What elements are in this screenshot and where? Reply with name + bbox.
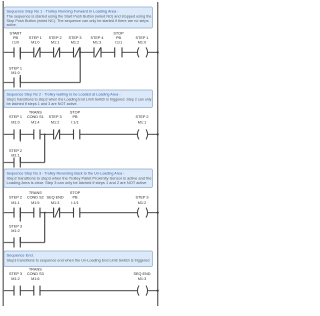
svg-text:STEP 1: STEP 1	[29, 36, 42, 40]
left power rail	[2, 1, 4, 306]
svg-text:M1:2: M1:2	[138, 201, 146, 205]
rung 2 branch riser left	[19, 129, 21, 162]
contact TRANS COND S2 M1:5 (NO)	[34, 208, 40, 218]
rung 1 seal contact STEP 1 M1:0 (NO) with label	[6, 60, 24, 88]
svg-text:SEQ END: SEQ END	[47, 195, 64, 199]
contact START PB I:1/0 (NO)	[14, 47, 20, 57]
svg-text:PB: PB	[72, 195, 78, 199]
svg-text:M1:1: M1:1	[51, 41, 59, 45]
svg-text:STEP 1: STEP 1	[9, 115, 22, 119]
contact STEP 2 M1:1 (NC)	[54, 47, 60, 57]
rung 1 branch riser left at node after START PB	[19, 47, 21, 82]
svg-text:M1:1: M1:1	[138, 120, 146, 124]
svg-text:START: START	[9, 32, 22, 36]
svg-text:TRANS: TRANS	[29, 110, 42, 114]
svg-text:TRANS: TRANS	[29, 191, 42, 195]
contact TRANS COND S1 M1:4 (NO)	[34, 129, 40, 139]
rung 2 labels	[9, 110, 149, 124]
svg-text:Sequence Step No 2 - Trolley w: Sequence Step No 2 - Trolley waiting to …	[7, 92, 122, 97]
contact TRANS COND S3 M1:6 (NO)	[34, 286, 40, 296]
svg-text:M1:1: M1:1	[11, 201, 19, 205]
rung 4 wire segments	[3, 290, 158, 292]
rung 4 labels	[9, 268, 151, 281]
rung 3 wire segments	[3, 212, 158, 214]
svg-text:M1:2: M1:2	[11, 229, 19, 233]
svg-text:STEP 3: STEP 3	[9, 272, 22, 276]
svg-text:Loading Area is clear. Step 3: Loading Area is clear. Step 3 can only b…	[7, 181, 147, 185]
contact SEQ END M1:3 (NC)	[54, 208, 60, 218]
svg-text:STOP: STOP	[113, 32, 124, 36]
rung 1 labels	[9, 32, 148, 45]
rung 3 branch riser right	[44, 213, 46, 243]
contact STOP PB I:1/1 (NO)	[74, 129, 80, 139]
contact STEP 3 M1:2 (NC)	[54, 129, 60, 139]
contact STOP PB I:1/1 (NO)	[74, 208, 80, 218]
svg-text:SEQ END: SEQ END	[133, 272, 150, 276]
svg-text:I:1/0: I:1/0	[12, 41, 19, 45]
rung 2 seal branch wire	[3, 162, 45, 164]
svg-text:M1:0: M1:0	[138, 41, 146, 45]
svg-text:be latched if steps 1 and 3 ar: be latched if steps 1 and 3 are NOT acti…	[7, 102, 78, 106]
svg-text:STOP: STOP	[70, 110, 81, 114]
coil STEP 3 M1:2	[137, 208, 139, 218]
header box: Sequence Step No 3	[4, 169, 153, 188]
rung 1 branch riser right after STEP 3 NC	[79, 47, 81, 82]
svg-text:COND S2: COND S2	[27, 195, 44, 199]
coil STEP 1 M1:0	[137, 47, 139, 57]
svg-text:STEP 2: STEP 2	[49, 36, 62, 40]
svg-text:I:1/1: I:1/1	[115, 41, 122, 45]
svg-text:M1:6: M1:6	[31, 277, 39, 281]
rung 2 seal contact STEP 2 M1:1 (NO) with label	[6, 142, 24, 168]
svg-text:M1:0: M1:0	[11, 120, 19, 124]
rung 3 branch riser left	[19, 208, 21, 243]
svg-text:M1:3: M1:3	[138, 277, 146, 281]
svg-text:PB: PB	[72, 115, 78, 119]
contact STEP 1 M1:0 (NC)	[34, 47, 40, 57]
svg-text:Sequence Step No 1 - Trolley R: Sequence Step No 1 - Trolley Running For…	[7, 9, 120, 14]
svg-text:M1:3: M1:3	[93, 41, 101, 45]
rung 1 seal branch wire	[3, 82, 80, 84]
svg-text:Sequence End.: Sequence End.	[7, 253, 34, 258]
rung 1 wire segments	[3, 51, 158, 53]
right power rail	[157, 2, 159, 306]
svg-text:Stop Push Button (wired NC). T: Stop Push Button (wired NC). The sequenc…	[7, 19, 149, 23]
svg-text:PB: PB	[116, 36, 122, 40]
svg-text:M1:0: M1:0	[31, 41, 39, 45]
svg-text:STOP: STOP	[70, 191, 81, 195]
contact STEP 3 M1:2 (NC)	[74, 47, 80, 57]
contact STEP 2 M1:1 (NO)	[14, 208, 20, 218]
svg-text:Step3 transitions to sequence: Step3 transitions to sequence end when t…	[7, 259, 150, 263]
svg-text:Sequence Step No 3 - Trolley R: Sequence Step No 3 - Trolley Reversing B…	[7, 171, 126, 176]
svg-text:STEP 3: STEP 3	[49, 115, 62, 119]
svg-text:M1:2: M1:2	[71, 41, 79, 45]
coil STEP 2 M1:1	[137, 129, 139, 139]
svg-text:STEP 3: STEP 3	[9, 224, 22, 228]
contact STOP PB I:1/1 (NO)	[115, 47, 122, 57]
svg-text:STEP 1: STEP 1	[135, 36, 148, 40]
svg-text:M1:1: M1:1	[11, 154, 19, 158]
svg-text:STEP 2: STEP 2	[9, 195, 22, 199]
coil SEQ END M1:3	[137, 286, 139, 296]
rung 3 labels	[9, 191, 149, 205]
contact STEP 1 M1:0 (NO)	[14, 129, 20, 139]
svg-text:STEP 1: STEP 1	[9, 66, 22, 70]
svg-text:M1:5: M1:5	[31, 201, 39, 205]
svg-text:STEP 3: STEP 3	[68, 36, 81, 40]
svg-text:I:1/1: I:1/1	[71, 201, 78, 205]
rung 2 wire segments	[3, 133, 158, 135]
svg-text:COND S3: COND S3	[27, 272, 44, 276]
header box: Sequence End	[4, 251, 153, 267]
contact STEP 4 M1:3 (NC)	[94, 47, 101, 57]
rung 3 seal contact STEP 3 M1:2 (NO) with label	[6, 222, 24, 248]
svg-text:STEP 4: STEP 4	[90, 36, 103, 40]
contact STEP 3 M1:2 (NO)	[14, 286, 20, 296]
svg-text:I:1/1: I:1/1	[71, 120, 78, 124]
svg-text:M1:4: M1:4	[31, 120, 39, 124]
svg-text:M1:0: M1:0	[11, 71, 19, 75]
svg-text:M1:2: M1:2	[51, 120, 59, 124]
svg-text:STEP 3: STEP 3	[135, 195, 148, 199]
rung 2 branch riser right	[44, 134, 46, 162]
svg-text:COND S1: COND S1	[27, 115, 44, 119]
svg-text:M1:2: M1:2	[11, 277, 19, 281]
rung 3 seal branch wire	[3, 242, 45, 244]
header box: Sequence Step No 1	[4, 7, 153, 28]
svg-text:M1:3: M1:3	[51, 201, 59, 205]
svg-text:PB: PB	[13, 36, 19, 40]
svg-text:STEP 2: STEP 2	[135, 115, 148, 119]
header box: Sequence Step No 2	[4, 90, 153, 108]
svg-text:STEP 2: STEP 2	[9, 149, 22, 153]
svg-text:active.: active.	[7, 23, 17, 27]
